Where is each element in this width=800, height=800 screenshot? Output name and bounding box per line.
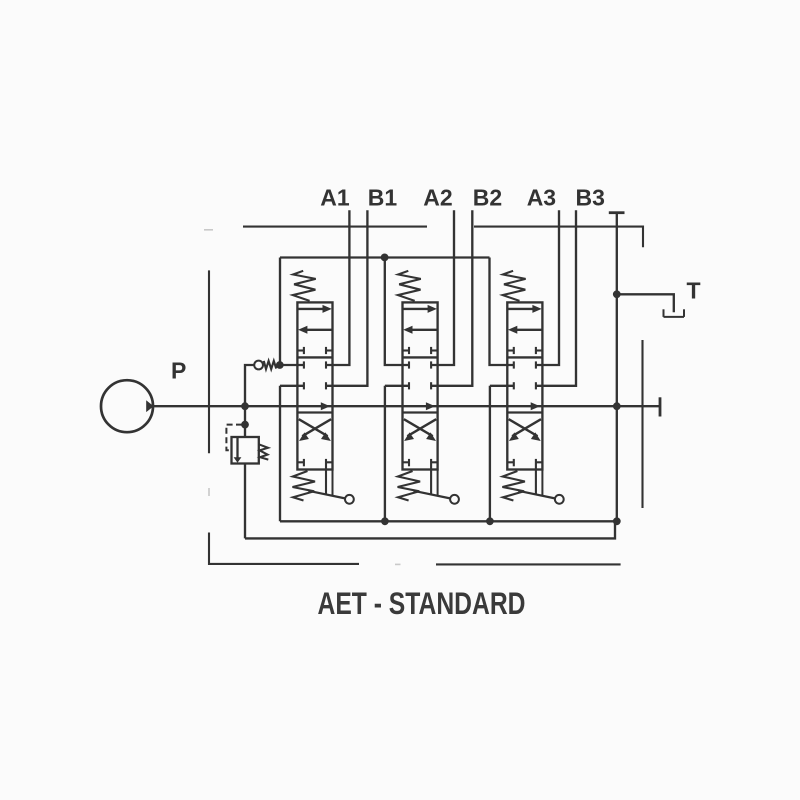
T riser top plug xyxy=(609,211,625,214)
wire V3 feed riser xyxy=(490,258,514,366)
wire supply gallery left edge xyxy=(279,258,281,366)
wire T riser xyxy=(616,213,618,522)
svg-text:A3: A3 xyxy=(527,185,556,211)
wire section 2 drain to gallery xyxy=(384,386,386,522)
relief valve RV1 spring xyxy=(259,444,269,459)
relief valve RV1 body xyxy=(232,437,259,464)
enclosure boundary top edge seg 2 + right corner xyxy=(474,227,643,248)
section 1 manual lever with handle xyxy=(309,491,346,499)
wire tank return gallery xyxy=(280,520,617,522)
wire T drain branch xyxy=(617,294,674,312)
directional valve section 2 spool box xyxy=(403,302,438,469)
section 3 manual lever pivot xyxy=(541,470,543,496)
junction node gallery-V3 drain xyxy=(486,517,494,525)
section 1 closed port marks row 1 xyxy=(297,349,304,351)
section 3 centering spring (bottom) xyxy=(502,471,525,501)
wire relief outlet xyxy=(244,464,246,539)
junction node P-T (open centre) xyxy=(613,402,621,410)
wire check valve to section 1 inlet xyxy=(280,364,304,366)
wire B2 riser xyxy=(431,210,472,386)
junction node T drain branch xyxy=(613,290,621,298)
section 3 return spring (top) xyxy=(503,271,526,301)
section 2 centering spring (bottom) xyxy=(398,471,421,501)
svg-text:B2: B2 xyxy=(473,185,502,211)
check valve CV1 ball xyxy=(254,361,263,370)
section 2 manual lever pivot xyxy=(437,470,439,496)
svg-text:AET - STANDARD: AET - STANDARD xyxy=(318,585,526,621)
wire section 1 drain to gallery xyxy=(279,386,281,522)
section 1 return spring (top) xyxy=(293,271,316,301)
wire B1 riser xyxy=(326,210,367,386)
section 3 closed port marks row 1 xyxy=(507,349,514,351)
tank symbol (drain to reservoir) xyxy=(664,309,685,317)
enclosure boundary left-bottom corner xyxy=(209,533,359,564)
section 1 closed port marks row 2 (A port, neutral) xyxy=(303,361,305,368)
enclosure boundary left edge seg 1 xyxy=(208,270,210,453)
svg-text:B3: B3 xyxy=(576,185,605,211)
wire A3 riser xyxy=(536,210,559,365)
section 1 position-1 parallel arrows xyxy=(297,308,324,310)
section 1 open-centre through-flow arrow xyxy=(321,402,330,410)
svg-text:P: P xyxy=(171,358,186,384)
wire A1 riser xyxy=(326,210,349,365)
junction node gallery-T riser xyxy=(613,517,621,525)
svg-text:B1: B1 xyxy=(368,185,398,211)
enclosure boundary bottom edge seg 2 xyxy=(436,563,621,565)
section 2 position-2 crossed arrows xyxy=(404,419,433,436)
section 1 manual lever pivot xyxy=(332,470,334,496)
section 2 open-centre through-flow arrow xyxy=(426,402,435,410)
section 3 position-2 crossed arrows xyxy=(509,419,538,436)
svg-text:A1: A1 xyxy=(320,185,350,211)
svg-text:T: T xyxy=(687,277,701,303)
section 1 position-2 crossed arrows xyxy=(299,419,328,436)
junction node check-outlet xyxy=(276,361,284,369)
wire relief return to gallery xyxy=(245,521,615,538)
junction node pilot tap xyxy=(241,421,249,429)
section 2 position-1 parallel arrows xyxy=(403,308,430,310)
pump P1 (fixed displacement) xyxy=(101,380,154,432)
wire P supply main line xyxy=(152,405,660,407)
section 1 closed port marks bottom xyxy=(297,461,304,463)
enclosure faint dash top-left xyxy=(204,229,213,231)
section 2 closed port marks bottom xyxy=(403,461,410,463)
wire V2 feed riser xyxy=(385,258,409,366)
enclosure faint dash left xyxy=(208,488,210,496)
junction node P-relief xyxy=(241,402,249,410)
directional valve section 3 spool box xyxy=(507,302,542,469)
section 3 closed port marks row 3 (B port, neutral) xyxy=(490,385,514,387)
wire relief-check branch riser xyxy=(245,365,254,437)
section 2 closed port marks row 3 (B port, neutral) xyxy=(385,385,409,387)
directional valve section 1 spool box xyxy=(297,302,332,469)
wire B3 riser xyxy=(536,210,576,386)
relief valve pilot line (dashed) xyxy=(226,425,242,451)
enclosure boundary right edge seg 2 xyxy=(641,340,643,508)
section 2 return spring (top) xyxy=(398,271,421,301)
section 2 closed port marks row 1 xyxy=(403,349,410,351)
section 3 manual lever with handle xyxy=(518,491,555,499)
section 3 position-1 parallel arrows xyxy=(507,308,534,310)
section 2 manual lever with handle xyxy=(414,491,451,499)
enclosure faint dash bottom xyxy=(395,563,401,565)
section 2 closed port marks row 2 (A port, neutral) xyxy=(408,361,410,368)
junction node gallery-V2 drain xyxy=(381,517,389,525)
check valve CV1 spring xyxy=(264,361,276,369)
section 1 centering spring (bottom) xyxy=(293,471,316,501)
section 1 closed port marks row 3 (B port, neutral) xyxy=(280,385,304,387)
wire A2 riser xyxy=(431,210,454,365)
P line end plug xyxy=(659,397,662,416)
enclosure boundary top edge seg 1 xyxy=(243,226,427,228)
svg-text:A2: A2 xyxy=(423,185,452,211)
section 3 open-centre through-flow arrow xyxy=(531,402,540,410)
wire section 3 drain to gallery xyxy=(489,386,491,522)
section 3 closed port marks row 2 (A port, neutral) xyxy=(513,361,515,368)
section 3 closed port marks bottom xyxy=(507,461,514,463)
junction node supply-V2 feed xyxy=(381,254,389,262)
wire supply gallery top edge xyxy=(280,256,490,258)
